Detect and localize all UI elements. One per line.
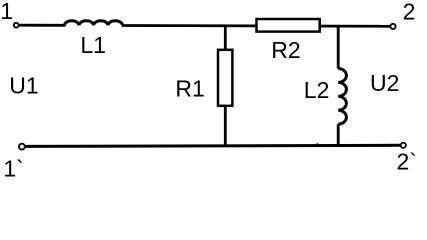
- svg-text:L1: L1: [80, 32, 106, 58]
- svg-text:U1: U1: [9, 73, 38, 99]
- terminal 2`: [401, 143, 406, 148]
- resistor R1: [218, 50, 232, 106]
- inductor L1: [65, 21, 123, 26]
- resistor R1 lead wire: [224, 26, 227, 146]
- top wire segment L1 to 2: [122, 24, 391, 28]
- svg-text:L2: L2: [304, 77, 330, 103]
- terminal 1`: [19, 144, 25, 150]
- resistor R2: [257, 19, 320, 32]
- svg-text:R1: R1: [175, 76, 204, 102]
- svg-text:R2: R2: [271, 37, 300, 63]
- junction dot on bottom wire: [316, 143, 319, 146]
- bottom wire 1` to 2`: [25, 145, 401, 146]
- inductor L2 lead wires: [337, 26, 340, 146]
- svg-text:U2: U2: [370, 70, 399, 96]
- top wire segment 1 to L1: [19, 24, 65, 27]
- svg-text:1`: 1`: [3, 156, 23, 182]
- svg-text:2: 2: [403, 0, 416, 24]
- inductor L2: [338, 69, 346, 125]
- terminal 2: [390, 24, 395, 29]
- svg-text:1: 1: [0, 0, 13, 24]
- svg-text:2`: 2`: [397, 149, 417, 175]
- terminal 1: [14, 23, 19, 28]
